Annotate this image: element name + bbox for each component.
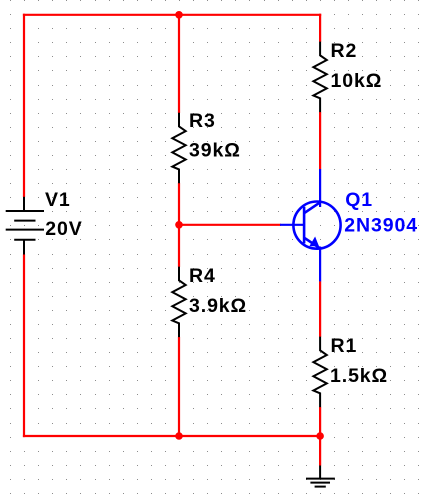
- wire left vertical (top to battery V1): [23, 14, 25, 197]
- wire top horizontal (V1+ to R2): [23, 14, 321, 16]
- wire base horizontal (node B to Q1 base): [179, 224, 281, 226]
- transistor Q1 emitter diagonal: [304, 238, 320, 248]
- wire R2 bottom to Q1 collector: [319, 112, 321, 169]
- resistor R2: [313, 42, 326, 113]
- svg-text:Q1: Q1: [345, 189, 373, 211]
- wire R4 bottom vertical: [178, 337, 180, 436]
- wire bottom horizontal (to ground node): [23, 435, 321, 437]
- transistor Q1 collector diagonal: [304, 202, 320, 213]
- wire R1 bottom vertical: [319, 407, 321, 436]
- resistor R3: [172, 113, 185, 184]
- junction node at top (R3 tap): [175, 11, 183, 19]
- svg-text:20V: 20V: [45, 218, 82, 240]
- svg-text:V1: V1: [45, 189, 71, 211]
- wire ground node to ground symbol: [319, 436, 321, 466]
- transistor Q1 collector lead wire: [319, 169, 321, 207]
- wire R3 top vertical: [178, 14, 180, 113]
- svg-text:39kΩ: 39kΩ: [189, 139, 241, 161]
- junction node bottom left of R4: [175, 432, 183, 440]
- svg-text:2N3904: 2N3904: [344, 214, 418, 236]
- resistor R1: [313, 337, 326, 408]
- junction node B (divider midpoint): [175, 221, 183, 229]
- wire node B to R4 top: [178, 225, 180, 267]
- transistor Q1 emitter arrow: [310, 238, 318, 246]
- wire R2 top vertical: [319, 14, 321, 42]
- svg-text:R2: R2: [331, 40, 358, 62]
- transistor Q1 base lead wire: [280, 224, 304, 226]
- wire left vertical (battery V1 to bottom): [23, 254, 25, 437]
- wire R3 bottom to node B: [178, 183, 180, 225]
- transistor Q1 body circle: [293, 202, 340, 249]
- svg-text:10kΩ: 10kΩ: [331, 70, 383, 92]
- svg-text:R3: R3: [189, 110, 216, 132]
- svg-text:3.9kΩ: 3.9kΩ: [189, 295, 247, 317]
- svg-text:R1: R1: [331, 335, 358, 357]
- ground symbol: [306, 466, 335, 487]
- wire Q1 emitter to R1 top: [319, 281, 321, 337]
- transistor Q1 emitter lead wire: [319, 247, 321, 282]
- transistor Q1 base bar: [303, 207, 306, 244]
- battery V1: [6, 197, 44, 255]
- svg-text:R4: R4: [189, 265, 216, 287]
- junction node at ground: [316, 432, 324, 440]
- resistor R4: [172, 267, 185, 338]
- svg-text:1.5kΩ: 1.5kΩ: [330, 365, 388, 387]
